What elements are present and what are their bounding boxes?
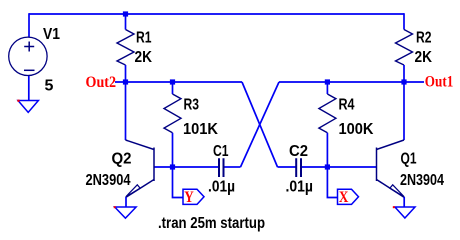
svg-text:Y: Y (184, 189, 194, 206)
voltage source V1 plus sign (24, 42, 34, 52)
resistor R1 (117, 30, 134, 66)
wire Out1 rail (279, 81, 424, 83)
wire Q1 emitter lead (403, 197, 405, 207)
junction node R3 top (170, 79, 175, 84)
junction node R4 top (325, 79, 330, 84)
svg-text:Out1: Out1 (425, 74, 454, 91)
wire X flag drop (327, 167, 337, 198)
voltage source V1 minus sign (24, 69, 35, 71)
net flag X (338, 189, 359, 204)
ground under Q2 (115, 207, 136, 218)
resistor R4 (319, 94, 336, 133)
wire R4 bottom lead (326, 133, 328, 167)
junction node R1 top (123, 11, 128, 16)
wire C2 left lead (278, 166, 297, 168)
svg-text:2N3904: 2N3904 (400, 172, 444, 189)
wire V1 bottom lead (28, 76, 30, 101)
svg-text:R4: R4 (339, 97, 355, 114)
wire Q1 base rail (327, 166, 376, 168)
ground under Q1 (395, 207, 415, 218)
wire top rail (29, 13, 404, 15)
junction node Q2 base / Y (170, 164, 175, 169)
wire Q2 emitter lead (125, 197, 127, 207)
svg-text:R1: R1 (136, 30, 152, 47)
wire Y flag drop (173, 167, 184, 198)
wire C1 right lead (225, 166, 241, 168)
wire cross diagonal B (Out1 to C1) (241, 82, 280, 167)
wire R2 top lead (403, 13, 405, 29)
wire V1 top lead (28, 13, 30, 37)
svg-text:C1: C1 (213, 143, 229, 160)
svg-text:Q1: Q1 (401, 151, 417, 168)
svg-text:R3: R3 (184, 97, 200, 114)
wire Q2 base rail (154, 166, 218, 168)
svg-text:X: X (339, 189, 349, 206)
wire Q2 collector vertical (125, 82, 127, 140)
wire R2 bottom lead (403, 65, 405, 82)
junction node C2 right / X (325, 164, 330, 169)
svg-text:2K: 2K (415, 49, 433, 66)
voltage source V1 circle (9, 37, 47, 75)
resistor R2 (396, 30, 413, 66)
resistor R3 (164, 94, 181, 133)
wire cross diagonal A (Out2 to C2) (242, 82, 278, 167)
svg-text:.01µ: .01µ (286, 178, 314, 195)
net flag Y (183, 189, 204, 204)
svg-text:.tran 25m startup: .tran 25m startup (158, 215, 265, 232)
capacitor C2 (296, 158, 301, 177)
wire Out2 rail (115, 81, 242, 83)
svg-text:R2: R2 (416, 30, 432, 47)
svg-text:100K: 100K (339, 121, 374, 138)
ground under V1 (18, 101, 38, 113)
svg-text:101K: 101K (183, 121, 218, 138)
svg-text:Out2: Out2 (86, 74, 117, 91)
wire R3 top lead (172, 82, 174, 94)
svg-text:C2: C2 (289, 143, 308, 160)
wire Q1 collector vertical (403, 82, 405, 140)
svg-text:2K: 2K (135, 49, 153, 66)
svg-text:.01µ: .01µ (208, 178, 235, 195)
junction node Out1 (401, 79, 406, 84)
svg-text:Q2: Q2 (112, 151, 132, 168)
svg-text:5: 5 (45, 77, 54, 94)
svg-text:V1: V1 (43, 26, 60, 43)
wire R4 top lead (326, 82, 328, 94)
transistor Q1 (377, 140, 405, 197)
capacitor C1 (219, 158, 224, 177)
svg-text:2N3904: 2N3904 (86, 172, 131, 189)
wire R1 bottom lead (125, 65, 127, 82)
transistor Q2 (126, 140, 155, 197)
junction node Out2 (123, 79, 128, 84)
wire R3 bottom lead (172, 133, 174, 167)
wire C2 right lead (302, 166, 327, 168)
wire R1 top lead (125, 14, 127, 30)
